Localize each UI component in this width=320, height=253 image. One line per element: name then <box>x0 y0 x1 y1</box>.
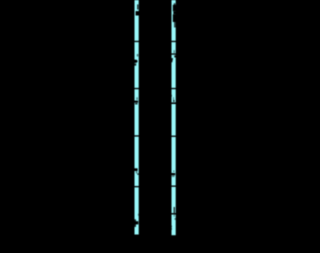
bar2 tick y=41 <box>171 41 176 42</box>
bar2 glyph y~94-104 <box>171 95 172 97</box>
bar2 tick y=135.7 <box>171 136 176 137</box>
bar2 tick y=88 <box>171 88 176 89</box>
bar2 tick y=185.6 <box>171 186 176 187</box>
bar1 tick y=41 <box>134 41 139 42</box>
bar 1 <box>135 0 139 235</box>
bar2 top glyph streak <box>174 3 176 5</box>
bar2 glyph y~50-63 <box>174 50 175 53</box>
bar2 glyph y~170-177 <box>173 171 174 172</box>
bar1 tick y=88 <box>134 88 139 89</box>
bar1 tick y=186 <box>134 186 139 187</box>
bar 2 <box>172 0 176 235</box>
bar1 glyph y~168-175 <box>134 168 138 171</box>
bar1 glyph y~97-104 <box>136 97 137 100</box>
bar2 glyph y~207-219 <box>174 207 175 213</box>
bar2 bottom notches <box>170 226 172 228</box>
bar1 glyph y~213-227 <box>138 214 139 216</box>
bar1 top glyphs <box>137 4 138 9</box>
bar1 glyph y~54-66 <box>137 54 139 57</box>
bar1 tick y=135.5 <box>134 135 139 136</box>
